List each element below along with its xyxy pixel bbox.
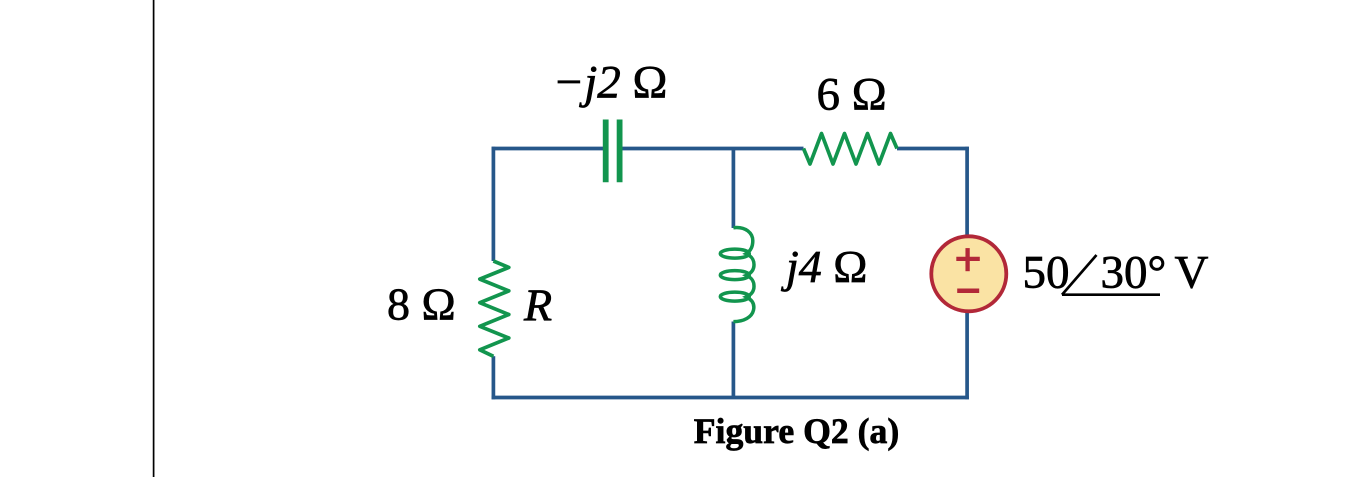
wire middle branch lower (inductor to bottom wire) [732,322,736,398]
voltage source polarity plus [956,248,980,271]
inductor L (j4 ohm, middle branch coil) [720,228,754,322]
wire top-right segment (6-ohm resistor to right corner) [897,147,969,151]
voltage source polarity minus [957,288,979,293]
resistor 6 ohm (top branch zigzag) [804,134,898,165]
voltage source VS (50 at 30 deg V) body [931,236,1006,311]
wire right branch lower [965,311,969,399]
svg-text:8 Ω: 8 Ω [387,279,456,330]
svg-text:R: R [523,280,552,331]
angle symbol of phasor 50/30 [1062,255,1160,295]
svg-text:−j2 Ω: −j2 Ω [553,57,668,109]
wire left branch upper [492,147,496,261]
resistor R (8 ohm, left branch zigzag) [480,261,509,356]
wire right branch upper [965,147,969,237]
svg-text:Figure Q2 (a): Figure Q2 (a) [694,411,900,451]
svg-text:50: 50 [1023,246,1070,298]
wire top-left segment (left corner to capacitor) [492,147,603,151]
svg-text:V: V [1175,246,1209,298]
capacitor C (-j2 ohm) plates [606,120,620,183]
wire middle branch upper (junction at top wire to inductor) [732,149,736,229]
wire bottom segment [492,396,969,400]
svg-text:j4 Ω: j4 Ω [781,241,867,292]
svg-text:30°: 30° [1101,246,1167,298]
svg-text:6 Ω: 6 Ω [817,68,887,120]
wire top-middle segment (capacitor to 6-ohm resistor) [622,147,804,151]
wire left branch lower [492,356,496,399]
